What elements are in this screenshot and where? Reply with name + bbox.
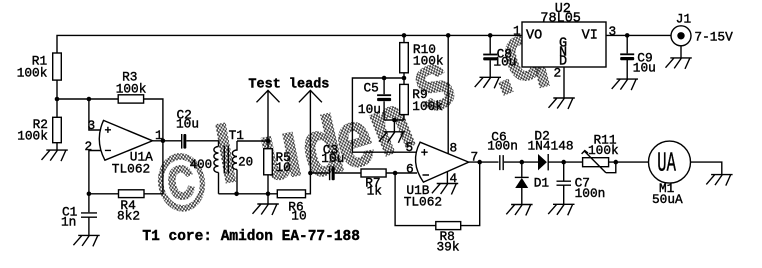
resistor R10 [400, 42, 444, 73]
svg-text:VO: VO [526, 29, 542, 44]
node C9 [625, 33, 630, 38]
svg-text:1: 1 [513, 24, 521, 39]
ground under J1 [666, 58, 692, 69]
wire U1B bias (pin5) [352, 78, 417, 152]
wire R3 to output node [144, 99, 163, 141]
svg-text:7-15V: 7-15V [694, 30, 733, 45]
wire node to R4 [89, 193, 119, 195]
voltage regulator U2 78L05 [522, 2, 606, 69]
wire J1 to ground [680, 46, 682, 58]
ground under C5/R9 [379, 120, 405, 143]
ground under C7 [548, 204, 574, 215]
capacitor C5 [358, 78, 391, 120]
ground at bottom rail [253, 194, 279, 215]
ground under C8 [475, 77, 501, 88]
capacitor C9 [620, 35, 656, 79]
resistor R9 [400, 84, 444, 114]
svg-text:3: 3 [88, 118, 96, 133]
wire R8 to output [461, 162, 480, 226]
node C8 rail [488, 33, 493, 38]
resistor R3 [116, 69, 147, 103]
wire U1B output to C6 [469, 161, 499, 163]
node U1A output [161, 139, 166, 144]
ground under D1 [506, 205, 532, 216]
node C6/D1/D2 [520, 160, 525, 165]
svg-text:TL062: TL062 [404, 195, 442, 210]
transformer T1 secondary winding 20t [232, 141, 253, 194]
svg-text:T1 core: Amidon EA-77-188: T1 core: Amidon EA-77-188 [142, 229, 360, 245]
capacitor C8 [483, 35, 516, 77]
svg-text:TL062: TL062 [112, 161, 150, 176]
wire U1A output [153, 140, 182, 142]
node R11 wiper [614, 160, 619, 165]
op-amp U1A [99, 120, 153, 176]
wire R6 to C3 row [306, 173, 311, 194]
wire C6 to D2 [504, 161, 538, 163]
ground under C9 [612, 79, 638, 90]
meter M1 [649, 141, 691, 207]
wire R9 stubs [403, 78, 405, 120]
node R10/R9 junction [402, 76, 407, 81]
ground under C1 [73, 235, 99, 246]
resistor R2 [17, 117, 61, 144]
capacitor C3 [321, 143, 344, 181]
svg-text:10u: 10u [493, 55, 516, 70]
node right lead / C3 [308, 171, 313, 176]
node C5/R9 bottom [392, 118, 397, 123]
node C5 top [382, 76, 387, 81]
wire R10 stubs [403, 35, 405, 78]
svg-text:100k: 100k [17, 65, 48, 80]
node pin3 tap [87, 97, 92, 102]
capacitor C2 [176, 108, 199, 149]
wire to U1A pin 3 [89, 99, 101, 130]
node D2/C7 [561, 160, 566, 165]
trimmer R11 [582, 133, 619, 173]
svg-text:8k2: 8k2 [117, 209, 140, 224]
pin 8 wire [447, 35, 449, 153]
resistor R4 [117, 190, 144, 224]
svg-text:10u: 10u [358, 102, 381, 117]
node R10 top [402, 33, 407, 38]
svg-text:Test leads: Test leads [248, 77, 329, 92]
transformer T1 primary winding 400t [190, 128, 245, 194]
wire R5 bottom [267, 141, 269, 194]
svg-text:10: 10 [276, 160, 291, 175]
svg-text:100k: 100k [588, 143, 619, 158]
ground under R2 [42, 150, 68, 161]
wire to C3 [310, 172, 329, 174]
svg-text:100k: 100k [17, 129, 48, 144]
svg-text:78L05: 78L05 [540, 11, 581, 26]
wire U2 pin3 to J1 [606, 34, 671, 36]
pin 4 wire [446, 172, 448, 184]
wire U1A pin 2 [89, 151, 101, 194]
capacitor C7 [557, 162, 606, 204]
svg-text:100n: 100n [575, 186, 606, 201]
wire D2 to R11 [548, 161, 582, 163]
node R5 bottom / ground [266, 192, 271, 197]
svg-text:3: 3 [609, 24, 617, 39]
svg-text:400: 400 [190, 158, 213, 172]
svg-text:39k: 39k [437, 240, 460, 255]
svg-text:5: 5 [406, 140, 414, 155]
wire U2 pin2 to ground [563, 67, 565, 98]
capacitor C1 [61, 194, 97, 236]
wire meter to ground [691, 162, 722, 175]
svg-text:50uA: 50uA [652, 192, 683, 207]
svg-text:10: 10 [291, 209, 306, 224]
svg-text:100n: 100n [487, 139, 518, 154]
node R1/R2 junction [55, 97, 60, 102]
svg-text:D1: D1 [534, 176, 550, 191]
wire secondary top to test lead [237, 140, 268, 142]
svg-text:VI: VI [582, 29, 598, 44]
ground under U2 [549, 98, 575, 109]
node pin8 rail [446, 33, 451, 38]
test lead left arrow [257, 90, 280, 141]
svg-text:1k: 1k [367, 183, 383, 198]
resistor R6 [277, 190, 306, 224]
op-amp U1B [404, 142, 469, 209]
node pin6/feedback [393, 171, 398, 176]
node secondary top / R5 [266, 139, 271, 144]
svg-text:C5: C5 [364, 80, 379, 95]
diode D2 [528, 128, 574, 170]
capacitor C6 [487, 129, 518, 170]
wire C3 to R7 [335, 172, 361, 174]
wire R4 to output node [144, 141, 163, 194]
svg-text:20: 20 [238, 156, 253, 170]
wire C5/R9 bottom joint [384, 119, 404, 121]
svg-text:100k: 100k [116, 82, 147, 97]
svg-text:10u: 10u [176, 117, 199, 132]
node pin2/R4/C1 [87, 192, 92, 197]
diode D1 [515, 162, 550, 204]
wire divider row [57, 98, 118, 100]
wire R2 to ground [56, 143, 58, 150]
wire R7 to U1B pin 6 [386, 172, 417, 174]
svg-text:100k: 100k [412, 99, 443, 114]
ground U1B pin 4 [432, 184, 458, 195]
svg-text:UA: UA [657, 149, 676, 179]
wire T1 bottom rail [219, 193, 278, 195]
svg-text:8: 8 [450, 141, 458, 156]
transformer T1 core [224, 146, 228, 174]
watermark ludens.cl [152, 5, 558, 231]
node secondary bottom [234, 192, 239, 197]
wire C2 to T1 [186, 141, 218, 147]
svg-text:2: 2 [85, 139, 93, 154]
wire feedback drop [395, 173, 436, 226]
wire R1 to R2 [56, 80, 58, 117]
svg-text:10u: 10u [633, 60, 656, 75]
resistor R5 [264, 149, 291, 175]
resistor R8 [436, 222, 461, 255]
connector J1 [671, 11, 691, 45]
svg-text:1N4148: 1N4148 [528, 139, 574, 154]
test lead right arrow [299, 90, 322, 173]
svg-text:6: 6 [406, 161, 414, 176]
node U1B output [477, 160, 482, 165]
svg-text:J1: J1 [676, 11, 692, 26]
resistor R7 [361, 169, 386, 198]
svg-text:2: 2 [554, 66, 562, 81]
wire +V top rail [57, 35, 522, 52]
ground right of meter [706, 175, 732, 186]
svg-text:1n: 1n [61, 215, 76, 230]
svg-text:10u: 10u [321, 151, 344, 166]
resistor R1 [17, 53, 62, 80]
wire R11 to meter [609, 161, 649, 163]
svg-text:100k: 100k [413, 54, 444, 69]
